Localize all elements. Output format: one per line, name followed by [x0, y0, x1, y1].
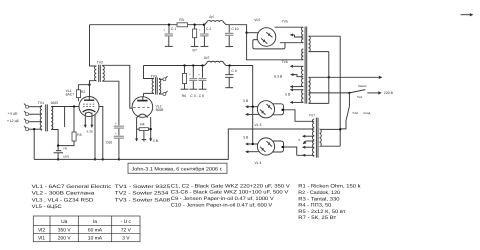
- wire grid node to R5: [73, 107, 75, 133]
- capacitor C6 (lower section): [114, 136, 124, 137]
- ground R6: [181, 88, 189, 90]
- wire rail2 to C9 node: [226, 66, 253, 145]
- TV7 left tap arrow 3: [305, 146, 314, 148]
- VL3 filament wires with arrows: [248, 106, 258, 108]
- resistor R6: [184, 66, 186, 74]
- svg-text:+: +: [163, 28, 165, 32]
- TV6 6.3V tap bottom arrow: [295, 86, 304, 88]
- wire R2 top to plate node: [78, 85, 89, 90]
- node input tap4 / ground drop: [33, 128, 35, 130]
- node battery-rail: [57, 158, 59, 160]
- wire TV5 right tap y51 to bus B: [309, 51, 329, 53]
- svg-text:VL2 - 300В Светлана: VL2 - 300В Светлана: [32, 191, 95, 197]
- ground C2: [201, 45, 209, 47]
- TV6 6.3V center tap arrow: [295, 75, 304, 77]
- wire input tap 1: [29, 106, 42, 108]
- TV6 6.3V tap top arrow: [295, 65, 304, 67]
- wire node to battery: [57, 146, 59, 151]
- svg-text:C 9: C 9: [231, 69, 236, 73]
- svg-text:TV1: TV1: [38, 101, 44, 105]
- svg-text:R5: R5: [77, 133, 81, 137]
- wire between cap sections: [118, 129, 120, 136]
- ground C6-C8: [199, 88, 207, 90]
- ground C10: [225, 46, 233, 48]
- wire TV5 right tap y103 to bus B bottom: [309, 102, 329, 104]
- wire TV5 right tap to SA1: [309, 92, 350, 94]
- svg-text:C9 - Jensen Paper-in-oil 0.47: C9 - Jensen Paper-in-oil 0.47 uf, 1000 V: [171, 196, 275, 202]
- capacitor C5 (upper section): [114, 126, 124, 127]
- VL1 grids (dashed): [83, 103, 95, 105]
- wire rail1 to corner: [226, 25, 247, 33]
- VL5 cathode loop: [253, 40, 285, 49]
- node R7: [193, 24, 195, 26]
- svg-text:R3: R3: [179, 18, 183, 22]
- VL5 anode plate 1: [266, 32, 272, 37]
- VL4 anode plate 2: [260, 147, 266, 152]
- TV5 secondary winding (right lower): [309, 77, 311, 103]
- capacitor C10: [228, 25, 230, 33]
- node C1: [168, 24, 170, 26]
- node VL1 plate / TV2 primary: [88, 84, 90, 86]
- svg-text:VL5: VL5: [254, 18, 260, 22]
- node C3C4: [192, 64, 194, 66]
- svg-text:R5 - 2x12 К, 50 вт: R5 - 2x12 К, 50 вт: [298, 209, 346, 215]
- svg-text:R2 - Caddok, 120: R2 - Caddok, 120: [298, 190, 340, 196]
- TV6 6.3V winding: [302, 66, 304, 86]
- wire input tap 2: [29, 113, 42, 115]
- svg-text:Ia: Ia: [93, 219, 97, 225]
- wire/arrow mains line 1: [309, 76, 379, 78]
- node C2: [203, 24, 205, 26]
- wire TV2 primary top to B+ rail1: [90, 25, 97, 66]
- svg-text:VL3 , VL4 - GZ34 RSD: VL3 , VL4 - GZ34 RSD: [32, 197, 94, 203]
- wire VL3 cathode to TV7: [284, 110, 315, 122]
- svg-text:R2: R2: [81, 90, 85, 94]
- node battery top: [57, 144, 59, 146]
- wire TV1 secondary top to VL1 grid: [51, 106, 79, 108]
- wire R7 to ground: [194, 38, 196, 47]
- resistor R2: [77, 90, 81, 98]
- title box John-3.1: [128, 163, 227, 173]
- common rail wire: [34, 129, 314, 159]
- svg-text:5 В: 5 В: [243, 136, 249, 140]
- svg-text:3 V: 3 V: [122, 236, 130, 242]
- svg-text:VL5 - 6Ц5С: VL5 - 6Ц5С: [32, 204, 63, 210]
- resistor R4 (hum pot): [139, 128, 148, 131]
- svg-text:C 2: C 2: [206, 27, 211, 31]
- svg-text:TV2: TV2: [97, 60, 103, 64]
- TV5 core: [305, 27, 307, 104]
- VL4 filament wires with arrows: [248, 143, 258, 145]
- svg-text:220 В: 220 В: [384, 91, 394, 95]
- wire TV2 secondary bottom to decoupling caps: [103, 81, 119, 126]
- wire stub from grid wire: [64, 107, 66, 128]
- svg-text:R4: R4: [140, 123, 144, 127]
- svg-text:Накал: Накал: [358, 84, 367, 88]
- resistor R5: [72, 132, 76, 141]
- wire VL5 to TV5 winding lower tap: [280, 42, 303, 44]
- TV7 left tap arrow 4: [297, 154, 315, 156]
- svg-text:300B: 300B: [156, 108, 165, 112]
- svg-text:Пб: Пб: [63, 147, 67, 151]
- wire node down to TV6 winding: [247, 33, 304, 60]
- ground C1: [165, 45, 173, 47]
- svg-text:6.3 В: 6.3 В: [274, 74, 283, 78]
- wire TV2 primary bottom to plate node: [90, 81, 97, 85]
- wire B+ rail 2: [144, 65, 205, 67]
- node VL5 anode feed: [245, 32, 247, 34]
- input terminal X4: [26, 128, 29, 131]
- svg-text:- U c: - U c: [121, 219, 132, 225]
- capacitor C2: [203, 25, 205, 34]
- transformer TV3: [152, 79, 154, 94]
- svg-text:Др1: Др1: [209, 15, 215, 19]
- svg-text:0: 0: [299, 138, 301, 142]
- VL1 cathode arc: [83, 110, 96, 112]
- svg-text:C1, C2 - Black Gate WKZ 220+22: C1, C2 - Black Gate WKZ 220+220 uF, 350 …: [171, 183, 291, 189]
- wire B+ rail 1: [90, 24, 205, 26]
- node VL1 grid / R5: [73, 105, 75, 107]
- svg-text:6AC7: 6AC7: [66, 93, 75, 97]
- ground C3-C5: [189, 88, 197, 90]
- svg-text:VL 3: VL 3: [255, 123, 262, 127]
- wire tap4 to common rail: [33, 129, 35, 159]
- tube VL4 GZ34: [257, 138, 274, 155]
- VL1 g3 lead to rail: [99, 107, 103, 160]
- TV6 5V tap top arrow: [295, 89, 304, 91]
- svg-text:John-3.1 Москва, 6 сентября 2: John-3.1 Москва, 6 сентября 2006 г.: [132, 167, 223, 173]
- VL3 anode plate 1: [267, 104, 273, 109]
- svg-text:TV2 - Sowter 2534: TV2 - Sowter 2534: [115, 191, 169, 197]
- ground R7: [191, 45, 199, 47]
- node VL3 filament B+: [252, 106, 254, 108]
- TV7 left tap arrow 2 (angled): [306, 140, 314, 142]
- input terminal X2: [26, 113, 29, 116]
- svg-text:72 V: 72 V: [121, 228, 132, 234]
- svg-text:R3 - Tantal, 330: R3 - Tantal, 330: [298, 196, 340, 202]
- svg-text:+: +: [115, 131, 117, 135]
- svg-text:R7 - 5К, 25 Вт: R7 - 5К, 25 Вт: [298, 215, 337, 221]
- svg-text:+: +: [198, 72, 200, 76]
- capacitor C3-C5: [192, 66, 194, 78]
- tube VL2 300B: [132, 97, 153, 118]
- svg-text:5 В: 5 В: [285, 92, 291, 96]
- TV7 core: [316, 118, 318, 158]
- R4 wiper to tap: [142, 131, 147, 142]
- svg-text:Ua: Ua: [61, 219, 68, 225]
- node VL4 filament B+: [252, 143, 254, 145]
- TV7 left tap arrow 1: [305, 135, 314, 137]
- page continuation arrow: [461, 14, 470, 16]
- VL3 cathode lobe: [273, 104, 284, 115]
- bus C vertical: [339, 36, 341, 146]
- choke Dr2: [204, 61, 226, 65]
- node R6: [183, 64, 185, 66]
- svg-text:R1 - Ricken Ohm, 150 k: R1 - Ricken Ohm, 150 k: [298, 184, 361, 190]
- capacitor C9: [228, 66, 230, 75]
- VL1 heater hairpin: [85, 112, 92, 114]
- svg-text:+: +: [189, 72, 191, 76]
- wire input tap 3: [29, 121, 42, 123]
- svg-text:TV5: TV5: [282, 20, 288, 24]
- svg-text:+ 6 дБ: + 6 дБ: [8, 112, 19, 116]
- wire caps to rail: [118, 139, 120, 160]
- svg-text:Др2: Др2: [204, 56, 210, 60]
- svg-text:C10 - Jensen Paper-in-oil 0.47: C10 - Jensen Paper-in-oil 0.47 uf, 600 V: [171, 202, 273, 208]
- wire R2 bottom to tube: [77, 98, 79, 102]
- wire C2 to ground: [203, 36, 205, 46]
- ground C9: [225, 87, 233, 89]
- tube VL3 GZ34: [257, 101, 274, 118]
- output terminal bottom: [159, 93, 163, 95]
- wire TV3 primary to VL2 plate: [144, 66, 154, 79]
- node VL4 cathode: [281, 146, 283, 148]
- switch SA1 blade: [349, 90, 365, 93]
- svg-text:R4 - ПП3, 50: R4 - ПП3, 50: [298, 203, 331, 209]
- wire C9 to ground: [228, 77, 230, 87]
- wire TV1 secondary bottom: [51, 130, 58, 146]
- svg-text:10 mA: 10 mA: [88, 236, 103, 242]
- svg-text:Vl1: Vl1: [38, 236, 45, 242]
- VL4 cathode lobe: [273, 141, 284, 152]
- svg-text:TV3: TV3: [151, 74, 157, 78]
- svg-text:БМ1: БМ1: [63, 155, 69, 159]
- node SA1: [348, 92, 350, 94]
- TV5 section A center tap arrow: [295, 35, 304, 37]
- operating point table: [33, 216, 140, 242]
- svg-text:C 3 - C 8: C 3 - C 8: [190, 94, 204, 98]
- wire VL4 cathode to TV7: [284, 147, 297, 155]
- svg-text:6.3В: 6.3В: [87, 129, 93, 133]
- TV6 winding section B: [302, 49, 304, 60]
- wire node to VL5: [247, 32, 259, 34]
- svg-text:C3-C8 - Black Gate WKZ 100+100: C3-C8 - Black Gate WKZ 100+100 uF, 500 V: [171, 190, 289, 196]
- svg-text:C 10: C 10: [231, 27, 238, 31]
- wire R5 bottom to node: [58, 141, 74, 146]
- transformer TV1: [40, 106, 42, 131]
- VL2 filament dome: [137, 114, 148, 118]
- wire C10 to ground: [228, 36, 230, 47]
- VL5 anode plate 2: [261, 38, 267, 43]
- svg-text:TV1 - Sowter 9325: TV1 - Sowter 9325: [115, 184, 171, 190]
- transformer TV2: [95, 66, 97, 81]
- wire input tap 4: [29, 128, 42, 130]
- wire VL5 top anode to TV5 winding: [275, 26, 304, 28]
- svg-text:+: +: [199, 28, 201, 32]
- choke Dr1: [204, 21, 226, 25]
- node bus B / mains1: [328, 76, 330, 78]
- node R4 right: [150, 128, 152, 130]
- output terminal top: [159, 78, 163, 80]
- switch SA2: [340, 93, 349, 129]
- arrow mains line 2: [367, 92, 378, 94]
- VL1 cathode lead to rail: [94, 115, 96, 160]
- node VL3 cathode: [281, 109, 283, 111]
- VL1 plate lead: [88, 97, 90, 101]
- node TV7/SA2/bus C: [339, 128, 341, 130]
- wire TV2 secondary top to VL2 grid: [103, 65, 133, 108]
- TV6 5V tap bottom arrow: [295, 101, 304, 103]
- svg-text:+: +: [115, 121, 117, 125]
- TV7 right winding: [320, 129, 322, 147]
- svg-text:VL 4: VL 4: [255, 161, 262, 165]
- tube VL1 6AC7: [79, 97, 99, 117]
- VL2 plate: [137, 100, 147, 102]
- wire battery to rail: [57, 153, 59, 160]
- svg-text:200 V: 200 V: [58, 236, 72, 242]
- VL4 anode plate 1: [267, 141, 273, 146]
- node C9: [228, 64, 230, 66]
- TV7 left winding: [312, 119, 314, 156]
- svg-text:5 В: 5 В: [243, 99, 249, 103]
- svg-text:R6: R6: [182, 94, 186, 98]
- input terminal X3: [26, 120, 29, 123]
- resistor R7: [194, 25, 196, 29]
- TV5 HV winding (left, section A): [302, 27, 304, 43]
- capacitor C6-C8: [202, 66, 204, 78]
- wire TV7 right top to bus C: [321, 128, 340, 130]
- wire C1 to ground: [168, 36, 170, 46]
- svg-text:SA2: SA2: [352, 111, 358, 115]
- svg-text:Анод: Анод: [363, 111, 370, 115]
- wire TV5 right tap y36 to bus C: [309, 35, 341, 37]
- bus B vertical: [328, 52, 330, 104]
- wire plate node down to VL1: [89, 85, 91, 97]
- svg-text:SA1: SA1: [357, 95, 363, 99]
- TV5 secondary winding (right upper): [309, 36, 311, 51]
- VL1 heater leads with arrows: [84, 113, 86, 127]
- wire TV7 right bottom to bus C: [321, 145, 340, 147]
- svg-text:C60: C60: [106, 141, 112, 145]
- VL3 anode plate 2: [260, 110, 266, 115]
- resistor R3: [177, 23, 188, 27]
- svg-text:C 1: C 1: [171, 27, 176, 31]
- svg-text:TV7: TV7: [309, 114, 315, 118]
- VL1 plate: [84, 99, 94, 101]
- svg-text:Vl2: Vl2: [38, 228, 45, 234]
- input terminal X1: [26, 105, 29, 108]
- svg-text:TV6: TV6: [282, 60, 288, 64]
- tube VL5 6Ts5S: [257, 28, 276, 47]
- capacitor C1: [168, 25, 170, 34]
- VL2 filament leads: [137, 117, 151, 129]
- svg-text:+ 12 дБ: + 12 дБ: [7, 119, 20, 123]
- svg-text:TV3 - Sowter SA08: TV3 - Sowter SA08: [115, 197, 171, 203]
- svg-text:R7: R7: [193, 48, 197, 52]
- VL2 grid (dashed): [133, 107, 151, 109]
- battery/bias cell: [56, 150, 62, 152]
- svg-text:5 В: 5 В: [153, 139, 159, 143]
- svg-text:60 mA: 60 mA: [88, 228, 103, 234]
- svg-text:9325: 9325: [51, 101, 59, 105]
- TV6 5V winding: [302, 90, 304, 103]
- svg-text:VL1 - 6AC7 General Electric: VL1 - 6AC7 General Electric: [32, 184, 112, 190]
- node C6C8: [201, 64, 203, 66]
- svg-text:350 V: 350 V: [58, 228, 72, 234]
